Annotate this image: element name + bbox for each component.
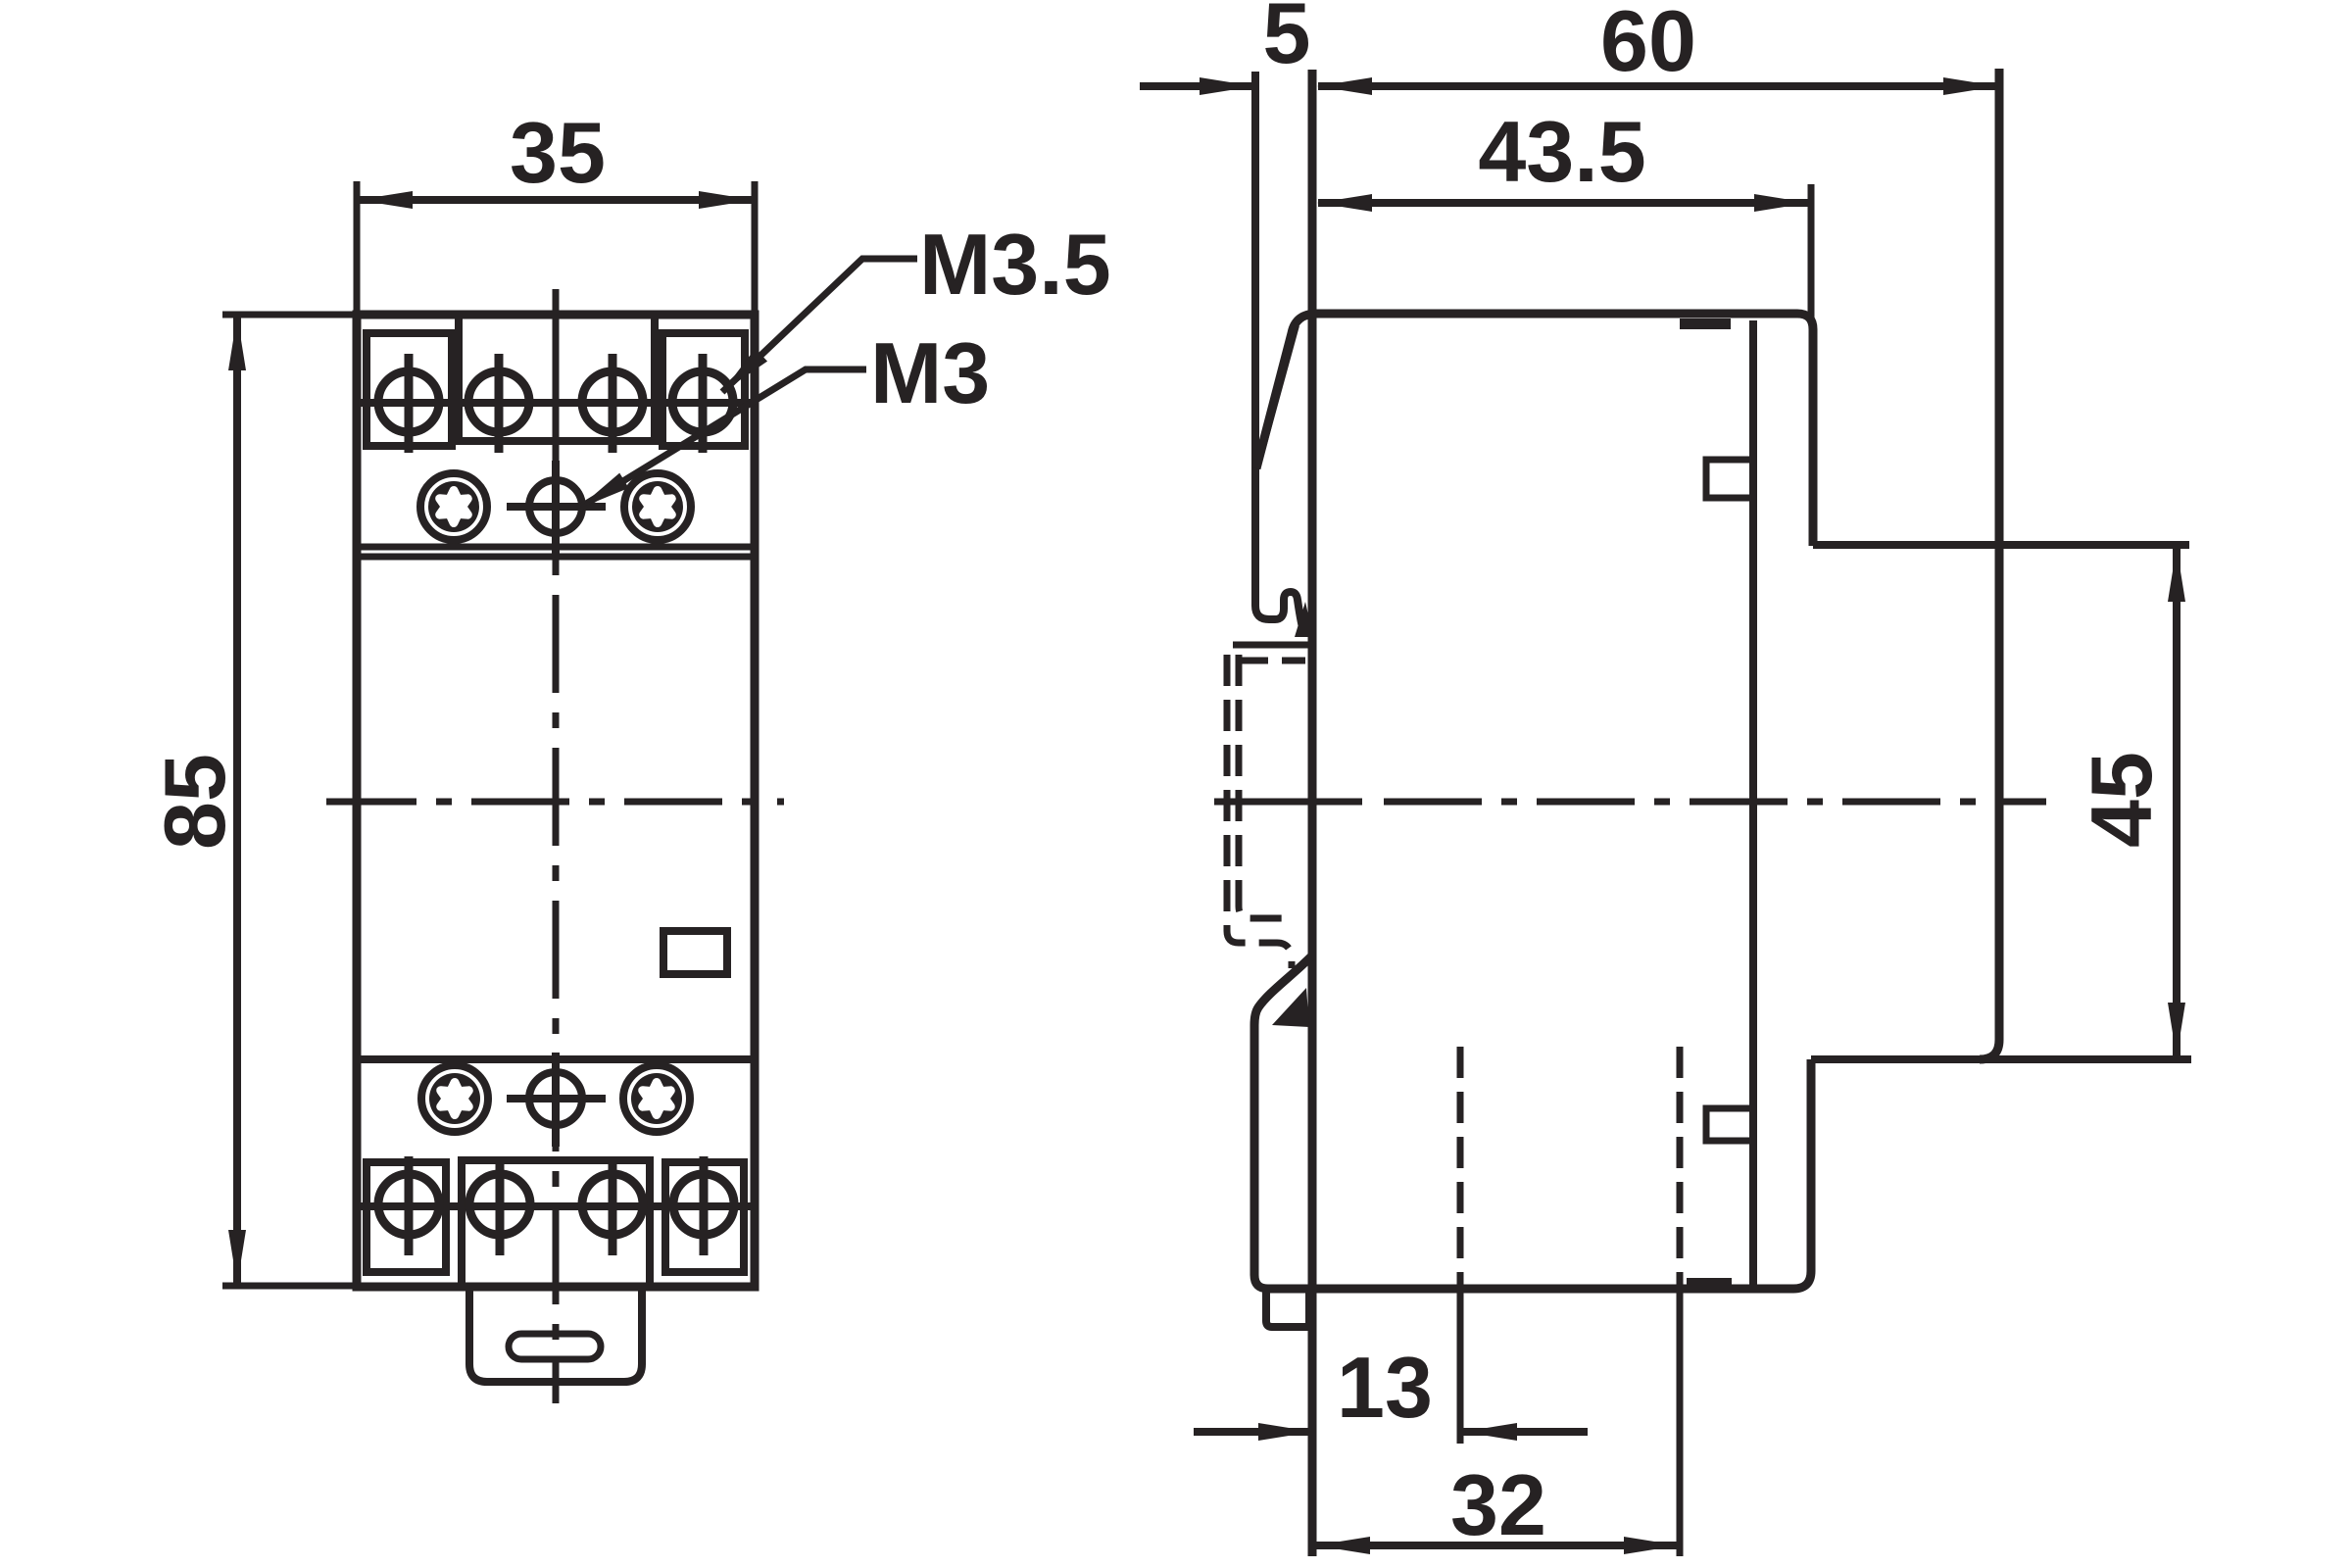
lower terminal screw 3 <box>582 1156 643 1255</box>
svg-text:M3.5: M3.5 <box>919 216 1111 313</box>
lower left terminal square <box>367 1162 446 1272</box>
DIN rail clip front <box>469 1287 642 1382</box>
hidden rail top edge <box>1237 658 1305 664</box>
lower latch tab <box>1706 1108 1753 1141</box>
lower torx screw left <box>421 1065 488 1132</box>
side view horizontal centerline <box>1214 799 1362 806</box>
dimension 35 extension lines <box>354 181 361 315</box>
svg-text:13: 13 <box>1337 1339 1433 1436</box>
hidden line 13 <box>1457 1047 1464 1274</box>
wall plane line (5mm) <box>1255 72 1304 635</box>
lower terminal screw 1 <box>378 1156 439 1255</box>
label M3 leader <box>578 369 866 509</box>
internal parting line <box>1749 320 1757 1287</box>
svg-text:85: 85 <box>146 754 243 850</box>
svg-text:5: 5 <box>1263 0 1311 81</box>
front view terminal section line (lower) <box>357 1055 755 1063</box>
lower torx screw right <box>623 1065 690 1132</box>
DIN clip slot <box>509 1334 601 1359</box>
indicator window <box>663 931 727 974</box>
front view horizontal centerline <box>326 799 784 806</box>
upper middle terminal box <box>459 315 655 441</box>
front view vertical centerline <box>553 289 560 1403</box>
dimension 35 line <box>359 196 753 204</box>
lower-right body and bottom, spring clip <box>1254 956 1811 1289</box>
lower middle terminal box <box>462 1160 650 1287</box>
dimension 43.5 extension line <box>1808 184 1815 323</box>
step line at 45-bottom (body + extension) <box>1811 1055 2191 1063</box>
claw lower edge <box>1233 642 1309 649</box>
side body top face and 43.5-deep back <box>1256 314 1813 546</box>
dimension 13 arrow right <box>1463 1428 1588 1436</box>
lower terminal screw 4 <box>673 1156 734 1255</box>
svg-text:32: 32 <box>1450 1456 1546 1553</box>
dimension 60 line <box>1318 82 1997 90</box>
clip foot <box>1266 1291 1309 1327</box>
terminal screw 2 <box>468 354 529 453</box>
hidden DIN rail inner <box>1239 655 1282 918</box>
svg-text:M3: M3 <box>870 324 990 421</box>
lower terminal screw 2 <box>469 1156 530 1255</box>
dimension 43.5 line <box>1318 199 1808 207</box>
top rear slant <box>1256 325 1296 468</box>
dimension 45 line <box>2173 548 2180 1056</box>
spring clip wedge <box>1272 988 1309 1027</box>
dimension 85 line <box>233 317 241 1284</box>
upper phillips screw M3 <box>507 461 606 555</box>
front view body outline <box>357 315 755 1287</box>
hidden DIN rail outer <box>1227 655 1292 968</box>
svg-text:45: 45 <box>2073 752 2170 848</box>
lower right terminal square <box>665 1162 744 1272</box>
lower phillips screw <box>507 1053 606 1147</box>
svg-text:60: 60 <box>1600 0 1696 89</box>
centerline solid run through terminal box <box>553 291 560 443</box>
step line at 45-top (body + extension) <box>1813 541 2189 549</box>
terminal screw 3 <box>582 354 643 453</box>
dimension 5 leader <box>1140 82 1253 90</box>
side view front face / mounting plane <box>1308 70 1317 1556</box>
terminal screw 1 <box>378 354 439 453</box>
terminal screw 4 <box>672 354 733 453</box>
hidden line 32 <box>1677 1047 1684 1274</box>
dimension 85 extension lines <box>222 312 357 318</box>
dimension 13 arrow left <box>1194 1428 1312 1436</box>
upper latch tab <box>1706 460 1753 498</box>
upper terminal screws row through-line <box>359 399 753 407</box>
upper right terminal square <box>662 333 745 446</box>
upper left terminal square <box>367 333 452 446</box>
svg-text:43.5: 43.5 <box>1478 103 1645 200</box>
front view terminal section line (upper, double) <box>357 544 755 551</box>
dimension 32 line <box>1316 1542 1678 1549</box>
back face (60) <box>1980 69 1999 1059</box>
svg-text:35: 35 <box>510 104 606 201</box>
upper torx screw right <box>624 473 691 540</box>
top face tick <box>1680 318 1731 329</box>
bottom tick <box>1687 1278 1732 1289</box>
lower terminal screws row through-line <box>359 1202 753 1210</box>
rail claw hook fill <box>1295 602 1313 637</box>
upper torx screw left <box>420 473 487 540</box>
label M3.5 leader <box>722 259 917 392</box>
